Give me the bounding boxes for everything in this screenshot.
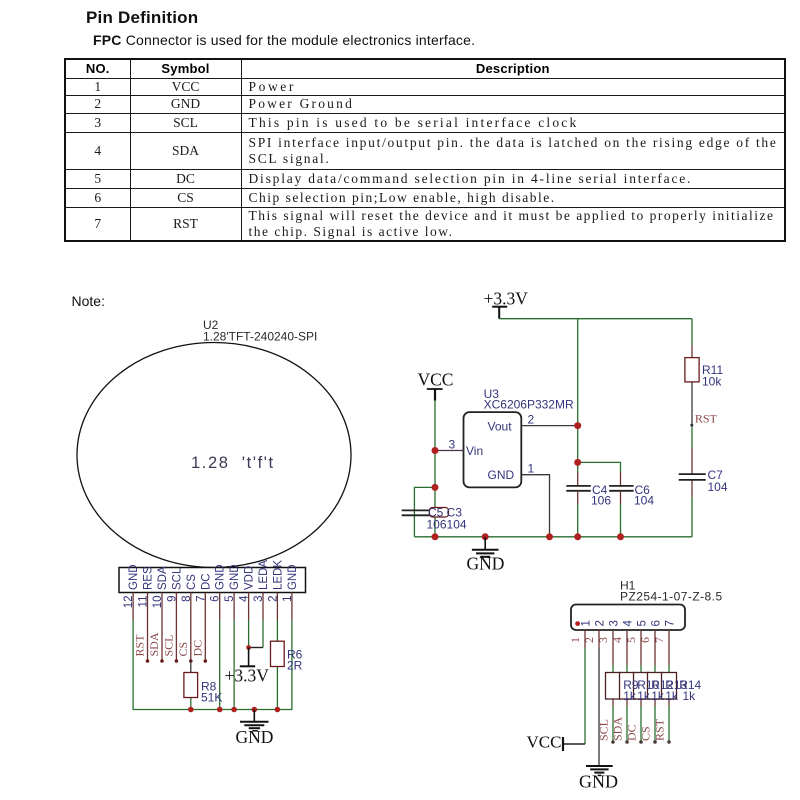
junction U3 GND/bus (546, 533, 553, 540)
svg-text:5: 5 (637, 620, 649, 626)
resistor R11 (685, 358, 724, 389)
svg-text:104: 104 (708, 480, 728, 494)
H1 pad number 7 (665, 620, 677, 626)
connector H1 labels (620, 579, 723, 604)
pin 3 Vin (432, 438, 464, 455)
svg-text:GND: GND (128, 564, 140, 590)
svg-text:2R: 2R (287, 659, 303, 673)
H1 pin 3 stub (612, 630, 614, 665)
svg-text:10k: 10k (702, 375, 722, 389)
capacitor C3 body (429, 508, 448, 518)
svg-text:2: 2 (595, 620, 607, 626)
connector H1 body (571, 605, 685, 631)
wire pin2 to GND (598, 648, 600, 766)
svg-text:1: 1 (528, 462, 535, 476)
svg-text:RES: RES (143, 566, 155, 590)
U2 pin number 11 (138, 596, 150, 608)
U2 pad name VDD (pin 4) (244, 566, 256, 590)
U2 pin 2 LEDK (276, 593, 278, 621)
svg-text:1.28 't'f't: 1.28 't'f't (191, 454, 275, 472)
U2 pin 8 CS (189, 593, 193, 663)
U2 pin 12 GND (132, 593, 134, 621)
svg-text:51K: 51K (201, 691, 222, 705)
U2 pin 4 VDD (248, 593, 250, 621)
svg-text:DC: DC (625, 724, 639, 741)
svg-text:GND: GND (236, 727, 274, 747)
U2 pin number 12 (123, 596, 135, 609)
pin 2 Vout (521, 413, 581, 430)
svg-text:RST: RST (133, 634, 147, 657)
svg-text:+3.3V: +3.3V (225, 666, 270, 686)
power +3.3V (backlight) (225, 645, 270, 685)
svg-text:GND: GND (467, 554, 505, 574)
U2 pad name LEDA (pin 3) (258, 560, 270, 590)
wire R11 column (691, 319, 693, 345)
op IC U3 (464, 387, 574, 487)
svg-text:3: 3 (449, 438, 456, 452)
power VCC (H1) (527, 733, 586, 752)
wire resistor to net stub RST (668, 699, 670, 742)
H1 pin 5 stub (640, 630, 642, 665)
junction R6/bus (275, 707, 281, 713)
svg-text:106: 106 (591, 494, 611, 508)
U2 pin number 8 (181, 596, 193, 602)
svg-text:LEDA: LEDA (258, 560, 270, 590)
svg-text:3: 3 (596, 637, 610, 643)
junction C6/bus (617, 533, 624, 540)
wire pin 3 to resistor (SCL) (612, 665, 614, 673)
U2 pin 3 LEDA (262, 593, 264, 621)
svg-text:CS: CS (176, 642, 190, 657)
svg-text:1: 1 (568, 637, 582, 643)
H1 pin 7 stub (668, 630, 670, 665)
U2 pad name GND (pin 6) (215, 564, 227, 590)
ground symbol (TFT) (236, 710, 274, 748)
U2 pad name SCL (pin 9) (171, 567, 183, 590)
svg-text:3: 3 (609, 620, 621, 626)
U2 pin 1 GND (291, 593, 293, 621)
wire R8 to bus (190, 698, 192, 710)
H1 pad number 5 (637, 620, 649, 626)
H1 pin number 4 (610, 637, 624, 643)
U2 pin number 5 (224, 596, 236, 602)
resistor R14 value label (679, 678, 701, 703)
wire pin6 to bus (219, 620, 221, 710)
U2 pin 9 SCL (175, 593, 179, 663)
U2 FPC connector box (119, 568, 306, 593)
resistor R12 value label (651, 678, 673, 703)
C5 C3 labels (427, 506, 467, 532)
svg-text:SDA: SDA (157, 566, 169, 590)
U2 pad name SDA (pin 10) (157, 566, 169, 590)
capacitor C6 (609, 483, 654, 537)
wire top rail (499, 318, 692, 320)
capacitor C5 (402, 510, 430, 515)
resistor R10 value label (637, 678, 659, 703)
wire pin 6 to resistor (CS) (654, 665, 656, 673)
H1 pad number 3 (609, 620, 621, 626)
svg-text:1k: 1k (623, 689, 637, 703)
svg-text:RST: RST (653, 718, 667, 741)
wire VCC column (434, 401, 436, 537)
resistor R10 (620, 673, 635, 700)
svg-text:DC: DC (200, 573, 212, 590)
svg-text:1k: 1k (637, 689, 651, 703)
U2 pin 5 GND (233, 593, 235, 621)
wire pin3 LEDA down (262, 620, 264, 648)
svg-text:SDA: SDA (611, 717, 625, 741)
svg-text:1k: 1k (665, 689, 679, 703)
U2 pin 6 GND (219, 593, 221, 621)
H1 pin 2 stub (598, 630, 600, 648)
svg-text:4: 4 (610, 637, 624, 643)
svg-text:SCL: SCL (161, 634, 175, 656)
U2 pin number 1 (282, 596, 294, 602)
wire pin4 VDD to +3.3V node (248, 620, 250, 648)
svg-text:5: 5 (624, 637, 638, 643)
net stub dot DC (639, 740, 643, 744)
H1 pin number 7 (652, 637, 666, 643)
H1 pad number 2 (595, 620, 607, 626)
U2 pin number 7 (195, 596, 207, 602)
H1 pad number 4 (623, 620, 635, 627)
U2 pad name RES (pin 11) (143, 566, 155, 590)
capacitor C4 (566, 483, 611, 537)
svg-text:RST: RST (695, 412, 718, 426)
resistor R13 (648, 673, 663, 700)
U2 pin number 6 (210, 596, 222, 602)
junction VCC/bus (432, 533, 439, 540)
net stub dot SDA (625, 740, 629, 744)
GND bus (414, 536, 692, 538)
header H1 section (527, 579, 723, 792)
wire LEDA to +3.3V node (249, 647, 263, 649)
junction C4-C6 node (574, 459, 581, 466)
wire pin2 LEDK to R6 (276, 620, 278, 641)
wire pin1 to VCC (584, 648, 586, 744)
wire 3.3V column (577, 319, 579, 472)
svg-text:LEDK: LEDK (272, 560, 284, 590)
U2 pad name GND (pin 5) (229, 564, 241, 590)
svg-text:VCC: VCC (418, 370, 454, 390)
svg-text:GND: GND (488, 468, 515, 482)
U2 pin number 2 (267, 596, 279, 602)
svg-text:4: 4 (623, 620, 635, 627)
svg-text:SDA: SDA (147, 632, 161, 656)
svg-text:PZ254-1-07-Z-8.5: PZ254-1-07-Z-8.5 (620, 590, 723, 604)
svg-text:GND: GND (287, 564, 299, 590)
H1 pin 4 stub (626, 630, 628, 665)
U2 pin 11 RES (146, 593, 150, 663)
svg-text:CS: CS (186, 574, 198, 590)
capacitor C7 (679, 468, 728, 494)
U2 pad name GND (pin 1) (287, 564, 299, 590)
U2 pin number 9 (166, 596, 178, 602)
svg-text:DC: DC (190, 640, 204, 657)
junction C4/bus (574, 533, 581, 540)
H1 pin 6 stub (654, 630, 656, 665)
svg-text:1k: 1k (651, 689, 665, 703)
power +3.3V (top) (484, 289, 529, 319)
net stub dot SCL (611, 740, 615, 744)
svg-text:106104: 106104 (427, 518, 467, 532)
H1 pin number 2 (582, 637, 596, 643)
svg-text:VDD: VDD (244, 566, 256, 590)
svg-text:VCC: VCC (527, 733, 562, 752)
svg-text:7: 7 (665, 620, 677, 626)
wire resistor to net stub SCL (612, 699, 614, 742)
H1 pin number 5 (624, 637, 638, 643)
junction ground/bus (252, 707, 258, 713)
wire resistor to net stub CS (654, 699, 656, 742)
svg-text:7: 7 (652, 637, 666, 643)
wire C5 loop (414, 487, 435, 536)
wire pin 7 to resistor (RST) (668, 665, 670, 673)
svg-text:XC6206P332MR: XC6206P332MR (484, 398, 574, 412)
H1 pad number 6 (651, 620, 663, 626)
svg-text:SCL: SCL (597, 719, 611, 741)
svg-text:1.28'TFT-240240-SPI: 1.28'TFT-240240-SPI (203, 330, 317, 344)
H1 pin1 mark (575, 621, 580, 626)
display module U2 (77, 318, 351, 747)
junction pin5/bus (231, 707, 237, 713)
U2 pin number 3 (253, 596, 265, 602)
H1 pad number 1 (581, 620, 593, 626)
H1 pin number 1 (568, 637, 582, 643)
resistor R9 (606, 673, 621, 700)
svg-text:SCL: SCL (171, 567, 183, 590)
wire pin12 to GND bus and bus to pin1 (133, 620, 292, 710)
ground symbol (H1) (579, 766, 618, 792)
junction pin6/bus (217, 707, 223, 713)
resistor R6 (271, 641, 303, 672)
svg-text:GND: GND (215, 564, 227, 590)
power VCC (418, 370, 454, 401)
svg-text:+3.3V: +3.3V (484, 289, 529, 309)
junction dot Vin (432, 484, 439, 491)
U2 pin 7 DC (204, 593, 208, 663)
wire pin 5 to resistor (DC) (640, 665, 642, 673)
svg-text:GND: GND (579, 772, 618, 792)
resistor R12 (634, 673, 649, 700)
U2 pad name GND (pin 12) (128, 564, 140, 590)
net stub dot RST (667, 740, 671, 744)
resistor R13 value label (665, 678, 687, 703)
svg-text:Vin: Vin (466, 444, 483, 458)
wire resistor to net stub DC (640, 699, 642, 742)
U2 pad name CS (pin 8) (186, 574, 198, 590)
resistor R9 value label (623, 678, 639, 703)
wire resistor to net stub SDA (626, 699, 628, 742)
H1 pin 1 stub (584, 630, 586, 648)
H1 pin number 6 (638, 637, 652, 643)
junction ground/bus (482, 533, 489, 540)
wire to C6 (578, 462, 621, 472)
svg-text:CS: CS (639, 726, 653, 741)
U2 label (203, 318, 317, 344)
U2 pin 10 SDA (160, 593, 164, 663)
svg-text:6: 6 (638, 637, 652, 643)
net label RST (690, 412, 717, 427)
resistor R14 (662, 673, 677, 700)
regulator section (402, 289, 728, 574)
U2 glass ellipse (77, 343, 351, 568)
svg-text:1: 1 (581, 620, 593, 626)
pin 1 GND (521, 462, 549, 537)
wire pin 4 to resistor (SDA) (626, 665, 628, 673)
svg-text:6: 6 (651, 620, 663, 626)
svg-text:104: 104 (634, 494, 654, 508)
U2 pin number 4 (239, 595, 251, 602)
junction R8/bus (188, 707, 194, 713)
wire CS to R8 (190, 661, 192, 673)
H1 pin number 3 (596, 637, 610, 643)
ground symbol (regulator) (467, 537, 505, 574)
svg-text:GND: GND (229, 564, 241, 590)
U2 pad name LEDK (pin 2) (272, 560, 284, 590)
svg-text:2: 2 (528, 413, 535, 427)
svg-text:1k: 1k (683, 689, 697, 703)
svg-text:Vout: Vout (488, 419, 513, 433)
U2 pin number 10 (152, 596, 164, 609)
wire pin5 to bus (233, 620, 235, 710)
U2 pad name DC (pin 7) (200, 573, 212, 590)
svg-text:2: 2 (582, 637, 596, 643)
wire R6 to bus (276, 667, 278, 710)
net stub dot CS (653, 740, 657, 744)
resistor R8 (184, 673, 222, 705)
